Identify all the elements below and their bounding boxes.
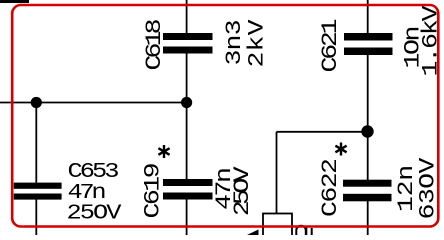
- svg-text:C619: C619: [141, 162, 166, 218]
- wire: [0, 102, 187, 104]
- wire: [367, 200, 369, 235]
- cut-off glyph (O shape) below border: [296, 226, 306, 240]
- capacitor C619: [163, 179, 213, 200]
- node junction dot C: [361, 125, 373, 137]
- svg-text:1.6kV: 1.6kV: [419, 5, 444, 76]
- node junction dot A: [31, 97, 42, 108]
- svg-text:3n3: 3n3: [223, 19, 248, 65]
- wire: [367, 55, 369, 180]
- cut-off glyph (triangle) below border: [247, 230, 259, 236]
- svg-text:25OV: 25OV: [231, 166, 256, 216]
- svg-text:2kV: 2kV: [245, 19, 270, 67]
- svg-text:C621: C621: [319, 18, 344, 72]
- wire: [186, 200, 188, 236]
- resistor (European box symbol, cut off at bottom): [263, 214, 292, 240]
- capacitor C622: [343, 180, 392, 202]
- cut-off glyph (bar) below border: [306, 228, 311, 236]
- svg-text:C618: C618: [143, 18, 168, 70]
- capacitor C618: [163, 33, 213, 54]
- wire: [186, 0, 188, 33]
- svg-text:25OV: 25OV: [67, 201, 122, 226]
- wire: [186, 54, 188, 180]
- asterisk for C622: [335, 143, 346, 156]
- svg-text:C622: C622: [319, 158, 344, 217]
- wire: [35, 200, 37, 236]
- node junction dot B: [181, 97, 192, 108]
- wire: [35, 103, 37, 183]
- capacitor C621: [344, 33, 393, 55]
- wire: [277, 131, 368, 133]
- asterisk for C619: [158, 145, 169, 158]
- black bar fragment top-left: [0, 0, 29, 3]
- wire: [367, 0, 369, 33]
- wire: [276, 132, 278, 214]
- capacitor C653: [14, 183, 62, 200]
